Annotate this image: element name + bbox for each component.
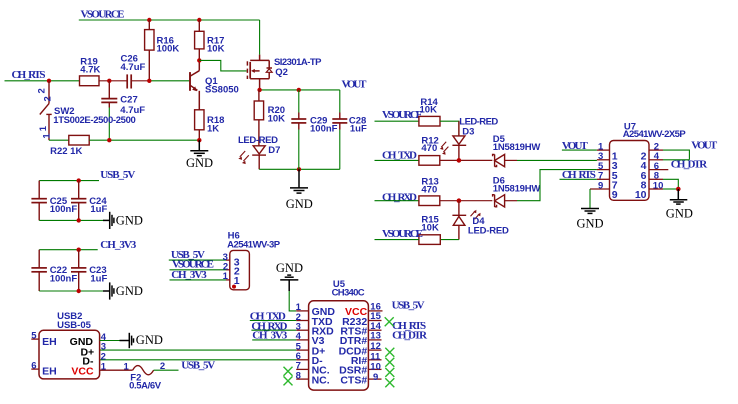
ground U7 pin9 bbox=[581, 209, 599, 214]
LED D4 bbox=[452, 201, 466, 240]
USB2 inside pin names bbox=[70, 336, 95, 378]
wire gate bbox=[199, 60, 246, 71]
svg-text:4.7K: 4.7K bbox=[80, 65, 100, 76]
svg-text:CH_3V3: CH_3V3 bbox=[171, 269, 207, 281]
svg-text:USB_5V: USB_5V bbox=[181, 360, 215, 372]
wire CH_3V3 top bbox=[39, 249, 97, 251]
svg-text:D3: D3 bbox=[462, 127, 474, 138]
wire SW2 to R22 bbox=[49, 139, 69, 141]
wire D6 up to U7 pin5 bbox=[517, 170, 597, 201]
svg-text:0.5A/6V: 0.5A/6V bbox=[129, 381, 162, 392]
svg-text:GND: GND bbox=[276, 261, 303, 275]
wire U7 pin7 bbox=[560, 178, 597, 180]
svg-text:10K: 10K bbox=[421, 223, 439, 234]
capacitor C27 bbox=[101, 81, 117, 108]
wire U5 pin3 bbox=[251, 329, 296, 331]
resistor R13 bbox=[419, 196, 440, 206]
no-connect X U5 pin7 bbox=[284, 367, 293, 376]
node junction bottom/GND bbox=[297, 167, 301, 171]
wire CH_TXD to R12 bbox=[375, 159, 419, 161]
svg-text:1: 1 bbox=[38, 125, 49, 131]
wire fuse to USB_5V label bbox=[154, 369, 179, 371]
U7 left pin numbers outside bbox=[598, 141, 604, 191]
LED D7 bbox=[252, 146, 266, 170]
ground under C29 bbox=[290, 169, 308, 193]
node junction D3/CH_TXD bbox=[457, 158, 462, 163]
capacitor C22 bbox=[31, 250, 47, 291]
node junction D4/CH_RXD bbox=[457, 198, 462, 203]
svg-text:1N5819HW: 1N5819HW bbox=[493, 142, 541, 153]
ground right of C23 (horizontal) bbox=[103, 282, 114, 299]
transistor Q1 bbox=[190, 60, 199, 109]
wire VSOURCE to R14 bbox=[375, 120, 419, 122]
resistor R15 bbox=[419, 235, 440, 245]
svg-text:9: 9 bbox=[598, 180, 603, 191]
U5 left pin stubs 1-8 bbox=[296, 311, 308, 379]
wire C22 block bottom bbox=[39, 290, 104, 292]
svg-text:VSOURCE: VSOURCE bbox=[81, 9, 125, 21]
capacitor C24 bbox=[71, 181, 86, 221]
svg-text:USB-05: USB-05 bbox=[57, 320, 92, 331]
wire H6 pin 1 bbox=[170, 279, 227, 281]
svg-text:9: 9 bbox=[373, 372, 378, 383]
node junction R22/C27 bbox=[107, 138, 111, 142]
wire VSOURCE rail bbox=[79, 19, 260, 21]
svg-text:CH_RTS: CH_RTS bbox=[12, 69, 46, 81]
U5 right pin names bbox=[339, 306, 368, 386]
svg-text:100nF: 100nF bbox=[50, 273, 78, 284]
svg-text:100nF: 100nF bbox=[310, 124, 338, 135]
no-connect X U5 pin8 bbox=[284, 376, 293, 385]
no-connect X pin15 bbox=[385, 317, 394, 326]
svg-text:4.7uF: 4.7uF bbox=[121, 62, 146, 73]
svg-text:1: 1 bbox=[223, 271, 229, 282]
svg-text:10K: 10K bbox=[268, 113, 286, 124]
svg-text:C27: C27 bbox=[120, 95, 137, 106]
node junction C23 bottom bbox=[77, 289, 81, 293]
U7 inside pin numbers left bbox=[612, 150, 618, 201]
ground right of USB2 pin4 (horizontal) bbox=[120, 333, 134, 348]
svg-text:GND: GND bbox=[136, 333, 163, 347]
no-connect X pin11 bbox=[385, 358, 394, 367]
svg-text:470: 470 bbox=[421, 143, 437, 154]
wire USB2 pin4 to GND bbox=[100, 340, 122, 342]
no-connect X pin10 bbox=[385, 368, 394, 377]
wire U7 pin4 bbox=[649, 159, 663, 161]
svg-text:USB_5V: USB_5V bbox=[100, 169, 135, 181]
resistor R22 bbox=[69, 135, 89, 145]
svg-text:NC.: NC. bbox=[312, 374, 330, 386]
U7 right pin numbers outside bbox=[653, 141, 664, 191]
resistor R12 bbox=[419, 156, 440, 166]
svg-text:1uF: 1uF bbox=[350, 124, 367, 135]
wire USB2 pin1 to fuse bbox=[100, 369, 133, 371]
wire U7 pin5 stub bbox=[597, 169, 610, 171]
U5 left pin names bbox=[312, 306, 336, 386]
wire D4 to R15 bbox=[440, 239, 459, 241]
diode D6 1N5819HW bbox=[493, 195, 505, 207]
USB2 pin 6 (EH) bbox=[31, 368, 39, 370]
svg-text:CH_DTR: CH_DTR bbox=[392, 329, 428, 341]
resistor R17 bbox=[195, 20, 204, 60]
wire D5 to U7 pin3 bbox=[517, 159, 597, 161]
wire D- USB2 to U5 pin6 bbox=[100, 359, 297, 361]
U7 inside pin numbers right bbox=[635, 150, 647, 201]
svg-text:VSOURCE: VSOURCE bbox=[382, 109, 423, 121]
svg-text:GND: GND bbox=[186, 156, 213, 170]
wire U7 pin10 to ground bbox=[649, 188, 663, 190]
svg-text:VOUT: VOUT bbox=[691, 139, 718, 151]
wire USB_5V top bbox=[39, 180, 99, 182]
U5 left pin numbers bbox=[296, 302, 302, 381]
no-connect X pin9 bbox=[385, 378, 394, 387]
svg-text:12: 12 bbox=[370, 341, 381, 352]
svg-text:10: 10 bbox=[653, 180, 664, 191]
svg-text:2: 2 bbox=[43, 96, 54, 101]
wire H6 pin 2 bbox=[170, 269, 227, 271]
resistor R16 bbox=[145, 20, 154, 81]
node junction R18/GND bbox=[197, 138, 201, 142]
node junction C23 top bbox=[77, 248, 81, 252]
svg-text:10K: 10K bbox=[420, 104, 438, 115]
wire GND to U5 pin1 bbox=[289, 291, 296, 311]
svg-text:CTS#: CTS# bbox=[340, 374, 367, 386]
no-connect X pin12 bbox=[385, 348, 394, 357]
capacitor C29 bbox=[291, 113, 306, 130]
svg-text:GND: GND bbox=[577, 217, 604, 231]
svg-text:R22 1K: R22 1K bbox=[50, 146, 82, 157]
wire R13 to D6 bbox=[440, 200, 493, 202]
svg-text:8: 8 bbox=[296, 370, 301, 381]
capacitor C26 bbox=[127, 74, 131, 88]
node junction C29 top bbox=[297, 88, 301, 92]
svg-text:1K: 1K bbox=[207, 123, 219, 134]
svg-text:CH_3V3: CH_3V3 bbox=[100, 239, 137, 251]
svg-text:CH340C: CH340C bbox=[332, 288, 365, 299]
svg-text:LED-RED: LED-RED bbox=[468, 226, 509, 237]
svg-text:1TS002E-2500-2500: 1TS002E-2500-2500 bbox=[53, 115, 136, 126]
svg-text:2: 2 bbox=[37, 88, 48, 93]
USB2 pin 5 (EH) bbox=[31, 338, 39, 340]
svg-text:VSOURCE: VSOURCE bbox=[382, 228, 423, 240]
wire U7 pin2 to VOUT bbox=[649, 149, 663, 151]
svg-text:D7: D7 bbox=[268, 145, 280, 156]
resistor R20 bbox=[254, 90, 263, 146]
LED D3 bbox=[452, 121, 466, 160]
svg-text:CH_DTR: CH_DTR bbox=[671, 159, 709, 171]
wire R19 to C26 bbox=[99, 80, 127, 82]
capacitor C23 bbox=[71, 250, 86, 291]
svg-text:9: 9 bbox=[612, 189, 618, 201]
wire R14 to D3 bbox=[440, 121, 459, 136]
wire R12 to D5 bbox=[440, 159, 493, 161]
svg-text:1: 1 bbox=[124, 361, 130, 372]
resistor R18 bbox=[195, 110, 204, 130]
capacitor C28 bbox=[332, 113, 347, 130]
wire CH_RXD to R13 bbox=[375, 200, 419, 202]
node junction C26/R16 bbox=[147, 79, 151, 83]
capacitor C25 bbox=[31, 181, 47, 221]
svg-text:GND: GND bbox=[116, 214, 143, 228]
svg-text:100nF: 100nF bbox=[50, 204, 78, 215]
ground right of C24 (horizontal) bbox=[103, 212, 114, 229]
node junction CH_RTS/SW2 bbox=[47, 79, 51, 83]
svg-text:VOUT: VOUT bbox=[342, 79, 368, 91]
svg-text:VCC: VCC bbox=[71, 366, 94, 378]
node junction R17/rail bbox=[197, 18, 201, 22]
svg-text:470: 470 bbox=[421, 185, 437, 196]
svg-text:10: 10 bbox=[635, 189, 647, 201]
svg-text:A2541WV-3P: A2541WV-3P bbox=[227, 239, 281, 250]
wire VSOURCE to R15 bbox=[375, 239, 419, 241]
svg-text:GND: GND bbox=[286, 197, 313, 211]
node H6 pin1 dot bbox=[232, 285, 236, 289]
wire bottom VOUT group bbox=[259, 168, 340, 170]
wire U7 pin9 to ground bbox=[590, 188, 610, 190]
node junction U7 pin8/pin10/GND bbox=[676, 187, 681, 192]
svg-text:6: 6 bbox=[31, 361, 36, 372]
switch SW2 bbox=[40, 81, 52, 140]
wire U7 pin6 CH_DTR bbox=[649, 169, 668, 171]
wire U7 pin1 bbox=[562, 149, 597, 151]
svg-text:EH: EH bbox=[42, 336, 57, 348]
svg-text:100K: 100K bbox=[157, 44, 180, 55]
svg-text:A2541WV-2X5P: A2541WV-2X5P bbox=[623, 129, 687, 140]
wire U5 pin4 bbox=[252, 339, 296, 341]
wire R22 row bbox=[89, 139, 199, 141]
resistor R19 bbox=[80, 76, 100, 86]
node junction C24 bottom bbox=[77, 218, 81, 222]
wire D+ USB2 to U5 pin5 bbox=[100, 349, 297, 351]
wire H6 pin 3 bbox=[169, 259, 226, 261]
svg-text:SS8050: SS8050 bbox=[205, 84, 239, 95]
U5 right pin stubs 16-9 bbox=[368, 311, 382, 379]
node junction Q2 source/R20 bbox=[257, 88, 261, 92]
wire CH_RTS row bbox=[5, 80, 80, 82]
diode D5 1N5819HW bbox=[493, 154, 505, 166]
node junction R16/rail bbox=[147, 18, 151, 22]
svg-text:1N5819HW: 1N5819HW bbox=[493, 184, 541, 195]
transistor Q2 (MOSFET) bbox=[247, 55, 272, 90]
node junction R19/C27 bbox=[107, 79, 111, 83]
resistor R14 bbox=[419, 116, 440, 126]
node junction R17/Q1/gate bbox=[197, 58, 201, 62]
svg-text:5: 5 bbox=[31, 331, 37, 342]
svg-text:GND: GND bbox=[116, 284, 143, 298]
wire U7 pin8 to ground bbox=[649, 178, 663, 180]
svg-text:1uF: 1uF bbox=[90, 273, 107, 284]
svg-text:10K: 10K bbox=[207, 44, 225, 55]
wire VOUT row bbox=[260, 89, 340, 91]
ground U7 pin10 bbox=[670, 189, 688, 204]
wire U5 pin2 bbox=[250, 320, 296, 322]
wire C26 to Q1 base bbox=[149, 80, 189, 82]
node junction C24 top bbox=[77, 178, 81, 182]
svg-text:Q2: Q2 bbox=[275, 67, 288, 78]
svg-text:EH: EH bbox=[42, 366, 57, 378]
svg-text:1: 1 bbox=[41, 133, 52, 139]
svg-text:GND: GND bbox=[666, 207, 693, 221]
wire U7 pin3 stub bbox=[597, 159, 610, 161]
svg-text:USB_5V: USB_5V bbox=[392, 300, 425, 312]
ground under R18 bbox=[190, 140, 208, 156]
svg-text:CH_RXD: CH_RXD bbox=[382, 191, 417, 203]
wire C25 block bottom bbox=[39, 219, 104, 221]
svg-text:1uF: 1uF bbox=[90, 204, 107, 215]
